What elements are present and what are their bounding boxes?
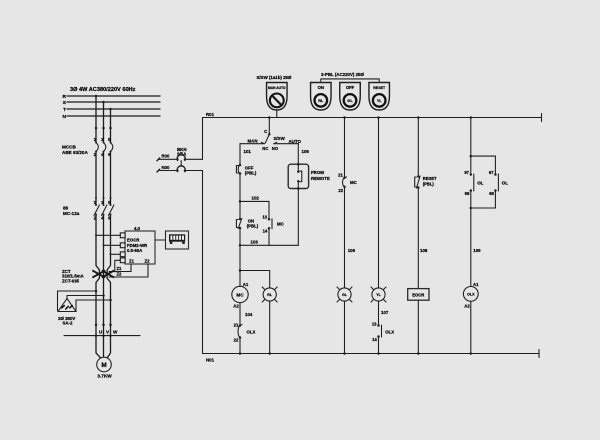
svg-text:REMOTE: REMOTE	[311, 176, 330, 181]
svg-text:Z2: Z2	[117, 272, 123, 277]
svg-text:RESET: RESET	[423, 176, 437, 181]
svg-text:104: 104	[245, 312, 253, 317]
svg-text:67: 67	[489, 170, 494, 175]
svg-text:FROM: FROM	[311, 170, 324, 175]
svg-text:102: 102	[252, 196, 260, 201]
svg-text:Z1: Z1	[117, 266, 123, 271]
svg-text:ZCT-035: ZCT-035	[62, 278, 80, 283]
svg-text:68: 68	[489, 191, 494, 196]
svg-text:3Ø 4W AC380/220V 60Hz: 3Ø 4W AC380/220V 60Hz	[70, 87, 136, 93]
svg-text:GL: GL	[347, 98, 353, 103]
svg-text:A2: A2	[233, 303, 239, 308]
svg-text:97: 97	[464, 170, 469, 175]
svg-text:14: 14	[263, 229, 268, 234]
svg-text:108: 108	[420, 248, 428, 253]
svg-text:MC-12a: MC-12a	[63, 211, 80, 216]
svg-text:106: 106	[348, 248, 356, 253]
svg-text:Z2: Z2	[145, 258, 151, 263]
svg-text:RL: RL	[267, 293, 273, 297]
svg-text:MAN: MAN	[248, 139, 258, 144]
svg-text:RESET: RESET	[373, 86, 386, 90]
svg-text:A2: A2	[464, 304, 470, 309]
svg-text:S/SW (1a1b) 25Ø: S/SW (1a1b) 25Ø	[257, 75, 292, 80]
svg-text:OFF: OFF	[346, 85, 355, 90]
svg-text:88: 88	[63, 206, 69, 211]
svg-text:21: 21	[338, 172, 343, 177]
svg-text:(PBL): (PBL)	[247, 223, 259, 228]
svg-text:3.7KW: 3.7KW	[97, 374, 112, 379]
svg-text:Z1: Z1	[129, 258, 135, 263]
svg-text:OLX: OLX	[467, 293, 475, 297]
svg-text:EOCR: EOCR	[412, 293, 424, 298]
svg-text:22: 22	[338, 188, 343, 193]
svg-text:13: 13	[262, 214, 267, 219]
svg-text:A1: A1	[243, 282, 249, 287]
svg-text:107: 107	[381, 310, 389, 315]
svg-text:A1: A1	[473, 282, 479, 287]
svg-text:3-PBL (AC220V) 25Ø: 3-PBL (AC220V) 25Ø	[321, 72, 364, 77]
svg-text:EOCR: EOCR	[127, 238, 140, 243]
svg-text:RL: RL	[318, 98, 324, 103]
svg-text:98: 98	[465, 191, 470, 196]
svg-text:109: 109	[473, 248, 481, 253]
svg-text:MC: MC	[236, 292, 244, 297]
svg-text:N: N	[63, 114, 67, 120]
svg-text:ON: ON	[318, 85, 324, 90]
svg-text:101: 101	[244, 149, 252, 154]
svg-text:MC: MC	[350, 180, 358, 185]
svg-text:S/SW: S/SW	[274, 136, 286, 141]
svg-text:22: 22	[234, 337, 239, 342]
svg-text:OL: OL	[502, 181, 508, 186]
svg-text:NC: NC	[262, 146, 268, 151]
svg-text:R01: R01	[206, 112, 215, 117]
svg-text:14: 14	[372, 337, 377, 342]
svg-text:N01: N01	[206, 358, 215, 363]
svg-text:NO: NO	[272, 146, 279, 151]
svg-text:T: T	[63, 107, 66, 113]
svg-text:106: 106	[302, 149, 310, 154]
svg-text:MC: MC	[277, 222, 285, 227]
svg-text:GL: GL	[342, 293, 348, 297]
svg-text:AUTO: AUTO	[289, 139, 302, 144]
svg-text:R00: R00	[162, 154, 170, 159]
svg-text:MCCB: MCCB	[62, 145, 76, 150]
svg-text:13: 13	[372, 321, 377, 326]
svg-text:ABE 63/20A: ABE 63/20A	[62, 150, 88, 155]
svg-text:4.0: 4.0	[134, 226, 141, 231]
svg-text:YL: YL	[376, 293, 381, 297]
svg-text:OLX: OLX	[247, 329, 256, 334]
svg-text:OLX: OLX	[385, 329, 394, 334]
svg-text:103: 103	[251, 240, 259, 245]
svg-text:M: M	[101, 362, 106, 369]
svg-text:(PBL): (PBL)	[423, 182, 435, 187]
svg-text:R: R	[63, 94, 67, 100]
svg-text:N00: N00	[162, 165, 170, 170]
svg-text:OL: OL	[477, 181, 483, 186]
svg-text:W: W	[113, 330, 118, 335]
svg-text:MAN AUTO: MAN AUTO	[268, 86, 286, 90]
svg-text:YL: YL	[377, 98, 383, 103]
svg-text:21: 21	[234, 323, 239, 328]
svg-text:0.5-60A: 0.5-60A	[127, 248, 142, 253]
svg-text:SA-2: SA-2	[63, 320, 74, 325]
svg-text:(PBL): (PBL)	[245, 170, 257, 175]
